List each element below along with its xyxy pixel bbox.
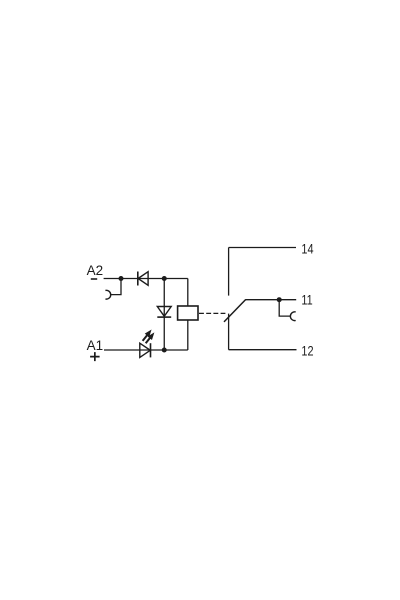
LED D3 emission arrow 2 [146, 334, 154, 344]
svg-text:11: 11 [301, 292, 312, 308]
LED D3 (cathode bar) [150, 343, 152, 357]
diode D1 series (triangle) [138, 272, 148, 286]
wire vertical branch [163, 279, 165, 351]
svg-text:12: 12 [301, 343, 313, 359]
plug contact socket at A2 [105, 290, 110, 299]
polarity plus mark at A1 [90, 352, 100, 361]
wire coil bottom stub [187, 320, 189, 350]
wire 12 horizontal [229, 349, 297, 351]
wire 11 horizontal [246, 299, 297, 301]
node junction at branch point [162, 276, 167, 281]
mechanical link dashed line from coil to contact [199, 312, 225, 314]
node junction on A2 wire [119, 276, 124, 281]
LED D3 emission arrow 1 [143, 331, 151, 341]
LED D3 (triangle) [140, 343, 151, 357]
polarity minus mark at A2 [91, 278, 97, 280]
node junction on A1 wire [162, 348, 167, 353]
relay coil K1 [178, 306, 198, 320]
diode D1 series (cathode bar) [137, 272, 139, 286]
wire stub to plug contact 11 [279, 300, 290, 316]
diode D2 freewheel (cathode bar) [157, 316, 171, 318]
wire A1 horizontal [104, 349, 188, 351]
wire A2 horizontal to coil [104, 278, 188, 280]
wire NO contact vertical (to 14) [228, 248, 230, 296]
plug contact socket at 11 [290, 312, 295, 321]
svg-text:14: 14 [301, 241, 313, 257]
wire stub to plug contact A2 [110, 279, 121, 295]
relay contact arm [224, 300, 246, 322]
node junction on wire 11 [277, 297, 282, 302]
wire common vertical (to 12) [228, 314, 230, 350]
diode D2 freewheel (triangle) [157, 307, 171, 317]
svg-text:A2: A2 [87, 263, 104, 278]
wire 14 horizontal [229, 247, 296, 249]
svg-text:A1: A1 [87, 338, 104, 353]
wire coil top stub [187, 279, 189, 307]
